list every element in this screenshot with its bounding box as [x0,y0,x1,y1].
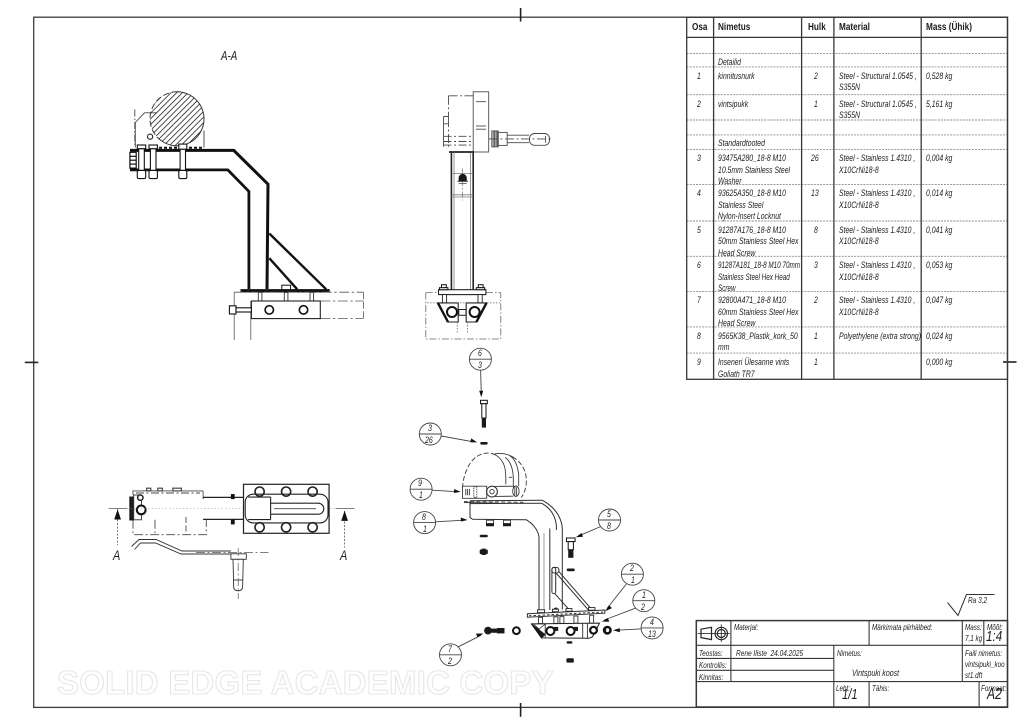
left angle bracket [438,303,458,322]
bracket tube (isometric, part 2) [470,500,562,610]
bolt part 5 [567,538,576,550]
horizontal bolt left [229,306,251,314]
phantom host box [426,293,501,339]
washer part 3 [480,442,488,445]
serrated strip under drum [159,147,204,149]
title block grid [696,595,1007,708]
balloons [410,348,663,666]
balloon numbers [478,348,482,360]
dotted hidden line [427,302,500,304]
strap (plan) [132,540,231,555]
balloon 4/13 [641,617,663,639]
Ra value [968,595,987,607]
base flange front [439,290,486,295]
phantom host beam [234,292,363,340]
tube arm outer wall (thick) [130,150,268,289]
bracket holes [546,627,554,635]
post body [451,153,473,290]
gusset [552,567,592,612]
balloon leader arrowheads [454,391,620,638]
tube arm inner wall (thick) [130,170,249,289]
balloon 3/26 [419,423,441,445]
exploded view [463,400,611,662]
center line through view [127,508,336,510]
bolt tips beside holes [554,627,559,631]
title block texts [734,622,758,634]
balloon 1/2 [633,590,655,612]
bolts hanging below tube top flange [486,520,511,526]
nut part 4 [604,627,610,633]
right angle bracket [466,303,486,322]
post top plate [449,151,474,153]
bolt part 6 [481,400,488,418]
balloon 5/8 [599,509,621,531]
section view A-A (top left) [108,86,363,340]
balloon 8/1 [414,512,436,534]
base flange (thick) [241,289,330,292]
winch drum hole [148,134,153,139]
table header [692,22,707,34]
bolt through tube 1 [137,145,145,179]
base plate [527,610,604,617]
nut below [480,550,488,555]
marks on base plate [538,608,595,613]
hatched drum circle [108,86,246,150]
washer and nut below plate [567,641,573,643]
winch mount plate behind drum [135,110,204,148]
bolt through tube 3 [179,144,187,178]
post centerline [461,169,463,201]
balloon 7/2 [440,644,462,666]
slot and tongue [245,494,328,523]
bolt part 7 [484,627,504,635]
handle (plan) [231,554,246,591]
big hole [137,506,146,515]
studs below plate [539,615,594,623]
surface finish symbol Ra 3,2 [948,595,995,616]
diagonal brace (thick) [269,234,326,290]
small bolt head on flange [282,285,291,289]
balloon 6/3 [469,348,491,370]
front view (top middle) [426,92,552,339]
winch handle [489,131,552,147]
studs below flange [258,293,313,302]
washer below bolt5 [567,569,575,572]
right dark ring [590,627,597,634]
washer below [480,535,488,537]
dotted projection lines [457,322,467,333]
section arrows [114,509,121,519]
bolt head on post [459,174,467,181]
first angle projection symbol [701,627,728,639]
section line A-A [109,509,355,548]
washer for bolt 7 [513,627,520,634]
view labels [221,51,237,63]
left wedge dark [532,624,546,638]
angle bracket assembly [532,623,600,638]
bolt head on plate [554,608,558,612]
left end cap (plan) [130,497,134,520]
winch phantom outline (plan) [133,488,206,535]
winch part 9 (isometric) [463,453,527,503]
balloon 2/1 [621,563,643,585]
parts list table grid [687,17,1008,379]
tube (plan) [203,497,243,519]
winch body phantom [444,92,489,152]
bolt through tube 2 [149,145,157,179]
balloon 9/1 [410,478,432,500]
mounting plate with holes (part 1 section) [251,301,320,319]
plan view (bottom left) [109,484,355,599]
studs below flange [442,295,482,303]
base plate with 6 holes [244,484,330,533]
plastic end cap (part 8) in section [130,152,136,168]
small hole [138,495,143,500]
table body [718,57,741,69]
spacer link [459,310,466,316]
flange bolt heads [440,285,485,290]
collar marks on tube [231,493,248,524]
svg-text:SOLID EDGE ACADEMIC COPY: SOLID EDGE ACADEMIC COPY [57,664,554,701]
